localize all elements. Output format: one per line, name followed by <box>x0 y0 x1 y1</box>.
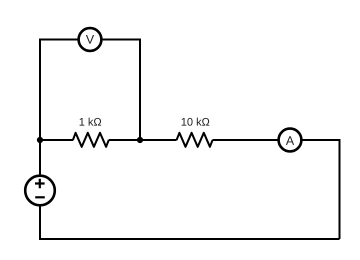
value label 1 kΩ <box>80 118 102 126</box>
wire: node A to resistor R1 <box>40 139 73 141</box>
voltmeter V <box>79 28 102 51</box>
junction node A <box>37 137 43 143</box>
source polarity minus <box>35 196 45 198</box>
wire: node A up left side to top-left corner, across to voltmeter <box>40 40 80 141</box>
wire: node B to resistor R2 <box>140 139 177 141</box>
wire: bottom return <box>39 238 340 240</box>
wire: voltmeter to top-right corner, down to node B <box>100 40 140 141</box>
wire: R2 to ammeter <box>213 139 281 141</box>
wire: source positive terminal up to node A <box>39 140 41 176</box>
wire: bottom-left corner up to source negative terminal <box>39 205 41 240</box>
value label 10 kΩ <box>182 118 210 126</box>
wire: ammeter to bottom-right corner, down right side <box>300 140 340 239</box>
ammeter A <box>279 129 302 152</box>
resistor R2 <box>177 133 213 147</box>
voltage source VS1 <box>25 176 55 206</box>
junction node B <box>137 137 143 143</box>
resistor R1 <box>73 133 109 147</box>
wire: R1 to node B <box>109 139 140 141</box>
source polarity plus <box>35 179 45 189</box>
